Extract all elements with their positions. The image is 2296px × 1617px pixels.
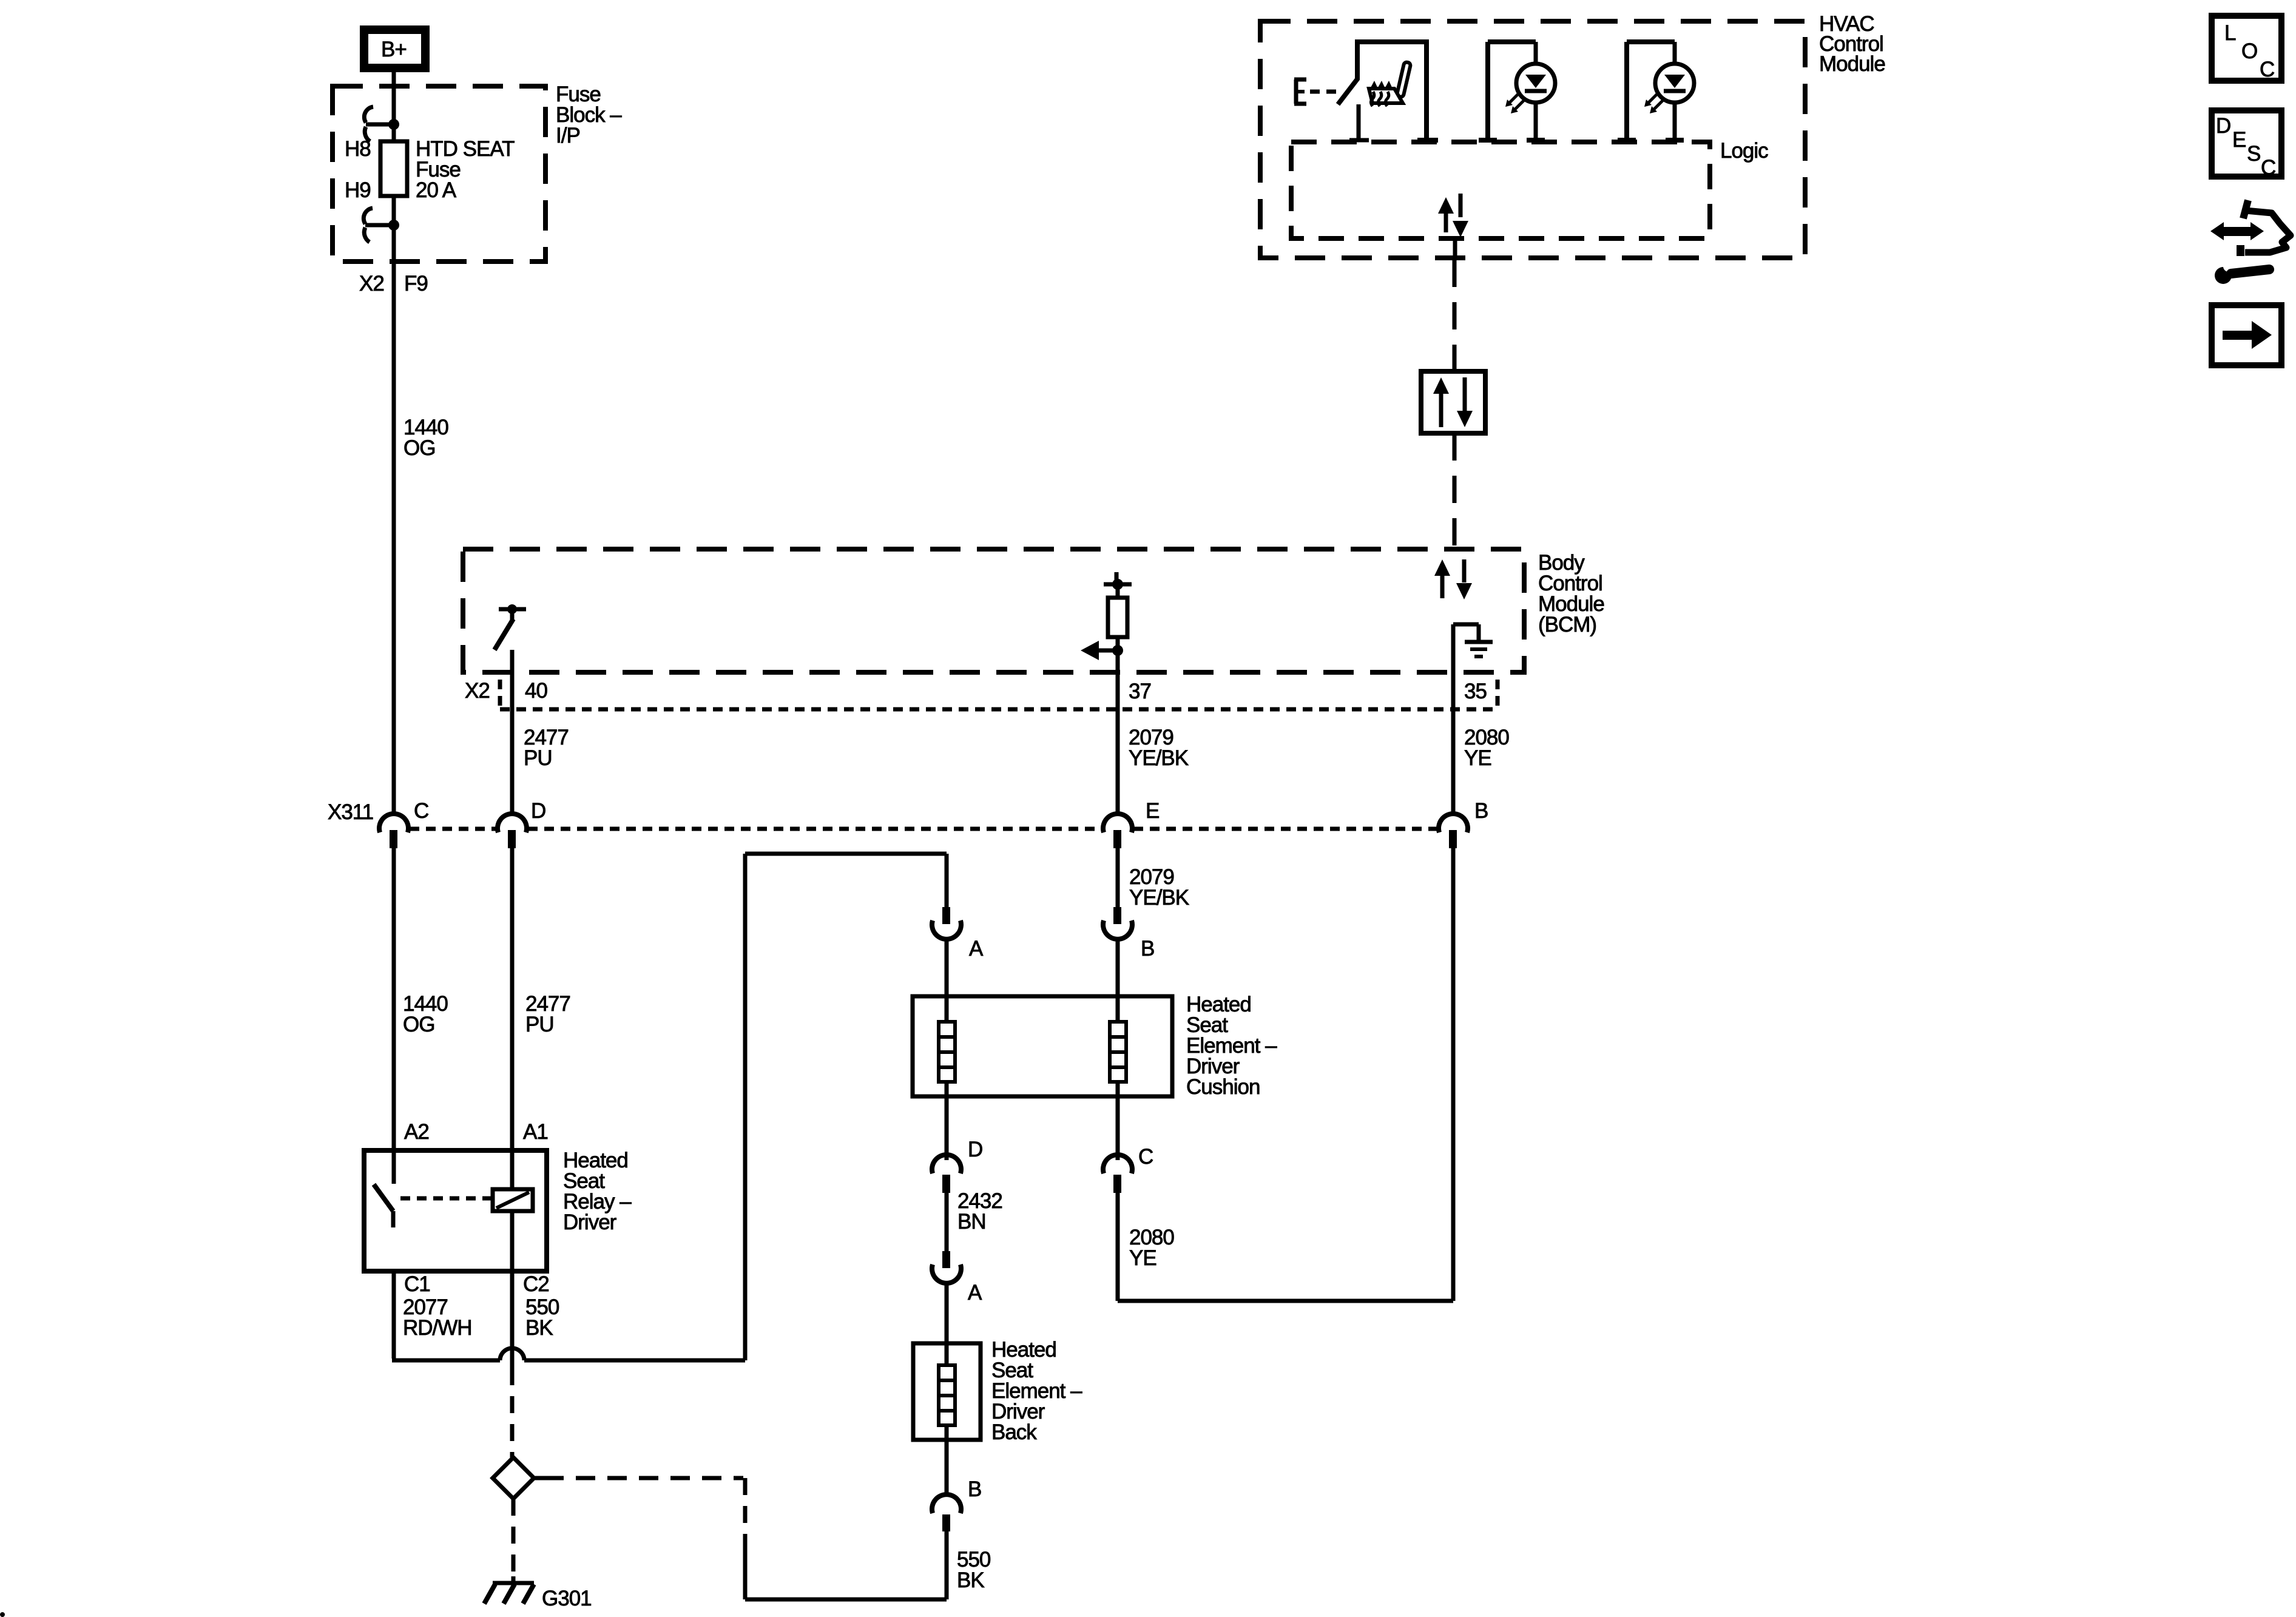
- svg-text:C: C: [414, 799, 428, 823]
- svg-text:L: L: [2224, 21, 2236, 45]
- wire into back element: [945, 1281, 949, 1366]
- fuse HTD SEAT 20A element: [392, 124, 396, 141]
- inline terminal D: [932, 1155, 961, 1173]
- svg-text:B: B: [1141, 937, 1154, 960]
- Body Control Module dashed box: [463, 549, 1524, 672]
- wire 2080 YE riser to X311 B: [1451, 847, 1456, 1301]
- svg-text:YE: YE: [1129, 1246, 1156, 1270]
- heated seat switch blade: [1338, 78, 1358, 104]
- BCM serial data arrows: [1434, 559, 1450, 576]
- wire 550 BK from back element: [945, 1531, 949, 1599]
- DESC icon box: [2212, 110, 2281, 177]
- wire cushion element to terminal D: [945, 1082, 949, 1160]
- bottom return run to seat back element pin B: [745, 1598, 947, 1602]
- svg-text:X311: X311: [328, 800, 373, 824]
- svg-text:D: D: [531, 799, 545, 823]
- svg-text:B+: B+: [381, 38, 407, 61]
- Logic dashed box: [1291, 142, 1710, 238]
- indicator LED 2: [1673, 42, 1677, 140]
- svg-text:C1: C1: [404, 1272, 430, 1296]
- switch frame outline: [1357, 42, 1427, 140]
- cushion heater element left: [939, 1022, 955, 1082]
- dashed wire splice to G301: [512, 1499, 516, 1578]
- splice diamond: [493, 1457, 534, 1499]
- wire into cushion element: [945, 937, 949, 1023]
- BCM X2 connector dotted line: [500, 707, 1499, 712]
- heated seat element driver back box: [913, 1343, 981, 1440]
- svg-text:S: S: [2247, 142, 2260, 166]
- ground G301: [512, 1576, 516, 1584]
- relay dashed actuation link: [400, 1197, 491, 1201]
- indicator LED 1 frame: [1485, 42, 1490, 140]
- wire cushion element to terminal C: [1116, 1082, 1120, 1160]
- svg-text:F9: F9: [404, 272, 428, 295]
- svg-text:X2: X2: [359, 272, 384, 295]
- dashed serial data wire gateway to BCM: [1453, 433, 1457, 549]
- svg-text:Module: Module: [1819, 52, 1885, 76]
- page mark dot: [0, 1612, 5, 1617]
- serial data gateway box: [1421, 371, 1485, 433]
- fuse terminal H8 clip: [364, 107, 373, 123]
- BCM internal resistor at pin 37: [1115, 572, 1119, 584]
- seat heater icon backrest: [1397, 62, 1411, 98]
- indicator LED 2 frame: [1624, 42, 1629, 140]
- wire back element to terminal B: [945, 1425, 949, 1496]
- svg-text:Logic: Logic: [1720, 139, 1768, 163]
- wire bottom run to feed elbow with hop over 550 BK: [392, 1359, 500, 1363]
- svg-text:C: C: [2260, 58, 2274, 81]
- node E: [1294, 79, 1298, 104]
- relay coil: [493, 1189, 533, 1211]
- forward arrow icon box: [2212, 305, 2281, 365]
- battery feed B+ box: [364, 30, 425, 68]
- svg-text:37: 37: [1129, 680, 1151, 703]
- svg-text:35: 35: [1464, 680, 1487, 703]
- svg-text:E: E: [2232, 128, 2246, 152]
- inline terminal A to back element: [942, 1251, 950, 1268]
- dashed link E to switch: [1310, 90, 1337, 94]
- svg-text:A2: A2: [404, 1120, 429, 1144]
- feed elbow top run to cushion element pin A: [745, 852, 947, 856]
- junction dot H9: [388, 220, 399, 231]
- svg-text:OG: OG: [403, 1013, 434, 1036]
- gateway down arrow: [1463, 377, 1467, 413]
- svg-text:Back: Back: [991, 1420, 1037, 1444]
- switch fixed contact: [1357, 104, 1361, 140]
- wire 2077 RD/WH down from relay: [392, 1271, 396, 1359]
- wire BCM pin 37: [1116, 637, 1120, 815]
- wire 550 BK from relay C2: [510, 1271, 515, 1368]
- heated seat element driver cushion box: [913, 996, 1172, 1096]
- svg-text:C2: C2: [523, 1272, 549, 1296]
- cushion heater element right: [1110, 1022, 1126, 1082]
- svg-text:A: A: [968, 1281, 982, 1305]
- seat heater icon cushion: [1369, 89, 1403, 103]
- svg-text:C: C: [2261, 156, 2275, 180]
- svg-text:X2: X2: [465, 679, 490, 703]
- svg-text:(BCM): (BCM): [1538, 613, 1596, 636]
- wire 1440 OG to relay: [392, 847, 396, 1184]
- svg-text:OG: OG: [403, 436, 435, 460]
- adjust/repair icon wrench: [2215, 267, 2232, 284]
- svg-text:BK: BK: [957, 1568, 984, 1592]
- BCM internal ground at pin 35: [1453, 623, 1479, 627]
- svg-text:E: E: [1146, 799, 1159, 823]
- wire 2080 YE bottom run: [1118, 1299, 1453, 1303]
- serial data arrows in logic: [1438, 197, 1454, 214]
- svg-text:YE/BK: YE/BK: [1129, 886, 1189, 910]
- relay switch blade: [374, 1184, 393, 1211]
- wire 1440 OG from fuse to X311: [392, 225, 396, 815]
- inline terminal B to cushion element: [1113, 907, 1121, 924]
- gateway up arrow: [1433, 377, 1449, 394]
- svg-text:Cushion: Cushion: [1186, 1075, 1260, 1099]
- BCM internal switch at pin 40: [499, 607, 526, 612]
- svg-text:20 A: 20 A: [416, 178, 457, 202]
- svg-text:I/P: I/P: [556, 124, 580, 147]
- wire BCM pin 40: [510, 650, 515, 815]
- X311 terminal E: [1103, 814, 1132, 832]
- svg-text:BN: BN: [957, 1210, 986, 1234]
- splice branch to seat back return: [534, 1476, 544, 1480]
- feed elbow riser: [743, 854, 748, 1360]
- svg-text:B: B: [968, 1477, 981, 1501]
- adjust/repair icon double arrow: [2210, 222, 2224, 240]
- connector X311 dashed line: [410, 827, 496, 831]
- svg-text:D: D: [2216, 114, 2230, 138]
- svg-text:40: 40: [525, 679, 547, 703]
- svg-text:H9: H9: [345, 178, 371, 202]
- wire BCM pin 35: [1451, 624, 1456, 815]
- svg-text:D: D: [968, 1138, 982, 1161]
- svg-text:C: C: [1138, 1145, 1153, 1169]
- svg-text:RD/WH: RD/WH: [403, 1316, 472, 1340]
- HVAC Control Module dashed box: [1260, 21, 1805, 258]
- svg-text:A: A: [969, 937, 984, 960]
- svg-text:A1: A1: [523, 1120, 548, 1144]
- svg-text:PU: PU: [524, 746, 552, 770]
- wire 2477 PU to relay: [510, 847, 515, 1189]
- indicator LED 1: [1534, 42, 1538, 140]
- adjust/repair icon panel outline: [2243, 200, 2248, 218]
- wire into cushion element: [1116, 937, 1120, 1023]
- inline terminal A to cushion element: [942, 907, 950, 924]
- fuse terminal H9 clip: [363, 208, 373, 224]
- wire logic to HVAC edge: [1453, 238, 1457, 260]
- junction dot H8: [388, 119, 399, 130]
- X311 terminal C: [379, 814, 408, 832]
- back heater element: [939, 1365, 955, 1425]
- heated seat relay driver box: [364, 1150, 547, 1271]
- X311 terminal D: [498, 814, 527, 832]
- svg-text:YE/BK: YE/BK: [1129, 746, 1189, 770]
- inline terminal C: [1103, 1155, 1132, 1173]
- svg-text:YE: YE: [1464, 746, 1491, 770]
- BCM sense arrow at pin 37: [1112, 645, 1123, 656]
- inline terminal B below back element: [932, 1494, 961, 1513]
- svg-text:O: O: [2241, 39, 2257, 63]
- wire 2432 BN: [945, 1193, 949, 1251]
- svg-text:G301: G301: [542, 1587, 592, 1610]
- svg-text:PU: PU: [525, 1013, 554, 1036]
- wire B+ to fuse block: [392, 68, 396, 143]
- seat heater icon wavy arrows: [1371, 92, 1374, 106]
- dashed serial data wire HVAC to gateway: [1453, 260, 1457, 371]
- X311 terminal B: [1439, 814, 1468, 832]
- svg-text:B: B: [1474, 799, 1488, 823]
- svg-text:BK: BK: [525, 1316, 553, 1340]
- wire 2079 YE/BK from X311 E: [1116, 847, 1120, 907]
- fuse block dashed box: [333, 86, 545, 262]
- wire 2080 YE return leg: [1116, 1193, 1120, 1301]
- svg-text:Driver: Driver: [563, 1210, 617, 1234]
- LOC icon box: [2212, 16, 2281, 81]
- svg-text:H8: H8: [345, 137, 371, 161]
